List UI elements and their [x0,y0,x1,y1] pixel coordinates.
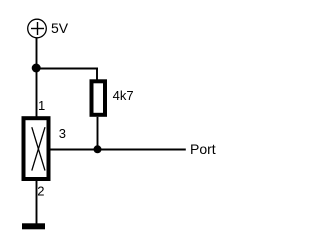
resistor R1 [92,81,106,115]
wire from resistor bottom to node B [97,117,99,150]
svg-text:2: 2 [37,184,44,199]
svg-text:Port: Port [190,141,216,157]
power supply V+ (5V source symbol) [28,19,47,38]
component U1 (box with X, 3-pin sensor) [24,118,49,179]
svg-text:5V: 5V [51,20,69,36]
svg-text:4k7: 4k7 [113,88,134,103]
wire from component pin 3 through node B to Port [51,149,186,151]
ground [22,223,45,229]
wire from node A right toward resistor [36,68,98,70]
wire from 5V supply down through node A to pin 1 of component [36,38,38,117]
junction node A [32,64,41,73]
svg-text:1: 1 [38,98,45,113]
svg-text:3: 3 [59,126,66,141]
junction node B [94,145,102,153]
wire down into resistor top [96,68,98,80]
wire from pin 2 down to ground [36,181,38,224]
